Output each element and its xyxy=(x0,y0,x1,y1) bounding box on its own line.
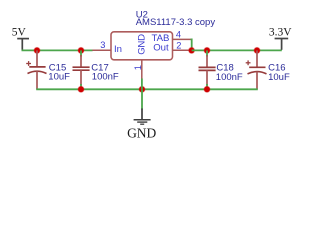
power flag 3.3V symbol xyxy=(275,39,289,50)
svg-text:10uF: 10uF xyxy=(48,71,70,82)
junction at C15 top xyxy=(34,47,41,54)
svg-text:GND: GND xyxy=(127,125,156,140)
svg-text:3: 3 xyxy=(100,40,105,50)
pin 2 line (Out) xyxy=(173,49,192,51)
svg-text:AMS1117-3.3 copy: AMS1117-3.3 copy xyxy=(136,17,216,28)
capacitor C17 (100nF) xyxy=(73,50,90,89)
pin 4 line (TAB) xyxy=(173,38,191,40)
op-amp U2 body (AMS1117-3.3 regulator) xyxy=(111,32,173,60)
svg-text:3.3V: 3.3V xyxy=(269,27,292,39)
svg-text:2: 2 xyxy=(176,40,181,50)
wire ground rail (bottom) xyxy=(36,88,258,90)
wire elbow from pin 4 to output rail xyxy=(191,39,192,50)
svg-text:GND: GND xyxy=(136,34,147,55)
svg-text:100nF: 100nF xyxy=(92,71,119,82)
capacitor C18 (100nF) xyxy=(199,50,216,89)
wire 5V rail (top left) xyxy=(22,49,93,51)
power flag 5V symbol xyxy=(17,39,29,50)
junction at GND stem xyxy=(139,86,146,93)
svg-text:100nF: 100nF xyxy=(216,72,243,83)
svg-text:1: 1 xyxy=(133,65,143,70)
svg-text:5V: 5V xyxy=(12,27,27,39)
svg-text:4: 4 xyxy=(176,30,181,40)
wire 3.3V rail (top right) xyxy=(192,49,282,51)
junction at pin2/pin4 join xyxy=(188,47,195,54)
pin 1 line (GND) xyxy=(141,60,143,80)
ground symbol GND xyxy=(134,89,151,124)
wire pin1 to ground rail xyxy=(141,79,143,90)
svg-text:Out: Out xyxy=(153,43,169,54)
junction at C16 top xyxy=(254,47,261,54)
capacitor C16 (polarized 10uF) xyxy=(246,50,267,89)
svg-text:10uF: 10uF xyxy=(268,72,290,83)
pin 3 line (In) xyxy=(92,49,111,51)
junction at C17 bottom xyxy=(78,86,85,93)
junction at C18 top xyxy=(204,47,211,54)
junction at C18 bottom xyxy=(204,86,211,93)
svg-text:In: In xyxy=(114,44,122,55)
junction at C17 top xyxy=(78,47,85,54)
capacitor C15 (polarized 10uF) xyxy=(26,50,46,89)
